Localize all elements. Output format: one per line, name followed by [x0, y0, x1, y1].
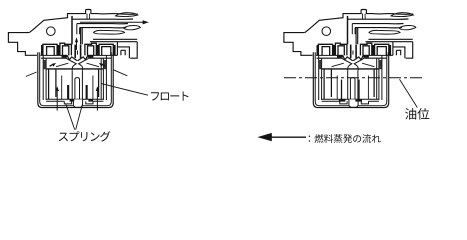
spring leader lines: [66, 104, 83, 129]
duct floor band: [90, 39, 137, 41]
spring foot left (right diagram): [339, 99, 346, 101]
vapor arrow toward seat (right): [102, 65, 105, 67]
spring foot right (right diagram): [355, 99, 362, 101]
center jet tube: [75, 78, 80, 100]
skirt shadow left: [44, 60, 46, 69]
vent pipe hanging: [77, 24, 80, 35]
float leader line: [101, 84, 148, 96]
cap vent hole: [47, 27, 56, 36]
gasket piece: [94, 30, 125, 34]
float bowl outer wall: [38, 52, 113, 107]
right diagram: same carburetor showing fuel level: [284, 10, 416, 108]
spring foot block right: [88, 99, 93, 101]
float guide rods: [62, 76, 93, 100]
center sump bump: [73, 99, 82, 107]
float arm tabs: [56, 63, 99, 66]
spring foot block left: [70, 99, 75, 101]
wall tick mark: [26, 72, 37, 77]
legend arrow (fuel vapor flow direction): [257, 133, 271, 141]
nipple bore lines: [87, 14, 90, 20]
label: spring (スプリング): [59, 131, 111, 142]
legend text: fuel evaporation flow: [309, 134, 381, 143]
vapor flow arrow up (right chamber): [96, 91, 98, 111]
nozzle outer walls: [72, 70, 82, 99]
upper duct inner wall: [72, 18, 133, 20]
carburetor cap outer outline: [8, 33, 37, 56]
spring rod left (right diagram): [341, 80, 343, 100]
duct opening upper lip: [116, 13, 138, 17]
valve cage teeth: [43, 43, 113, 55]
chamber ceiling band: [41, 55, 112, 58]
valve seat funnel: [67, 55, 88, 60]
tooth shadow slots: [41, 45, 43, 55]
duct middle wall: [77, 23, 128, 25]
vapor arrow toward seat (left): [50, 65, 53, 67]
spring rod right (right diagram): [358, 80, 360, 100]
float leader line upper: [113, 70, 127, 76]
float pontoon walls: [49, 69, 99, 99]
vapor flow arrow up (central passage): [76, 41, 78, 50]
label: oil level (油位): [405, 108, 429, 120]
duct opening lower lip: [124, 25, 141, 29]
float top surface: [46, 68, 103, 70]
spring (left, solid bar): [67, 85, 69, 99]
cap inner skirt walls: [43, 55, 106, 100]
oil level leader line: [400, 79, 418, 107]
vapor flow arrow up (left chamber): [56, 91, 58, 111]
fuel level dash-dot line: [284, 77, 424, 79]
skirt shadow right: [104, 60, 106, 69]
central vent passage: [71, 16, 73, 44]
label: float (フロート): [151, 92, 189, 101]
spring (right, solid bar): [86, 85, 88, 99]
left diagram: carburetor float chamber cross-section: [8, 10, 140, 108]
duct lower wall: [80, 27, 127, 29]
float bowl inner wall: [40, 52, 112, 105]
chamber floor: [46, 99, 103, 104]
vapor flow arrow out duct (long right arrow): [80, 21, 144, 23]
cap right skirt: [117, 42, 137, 59]
